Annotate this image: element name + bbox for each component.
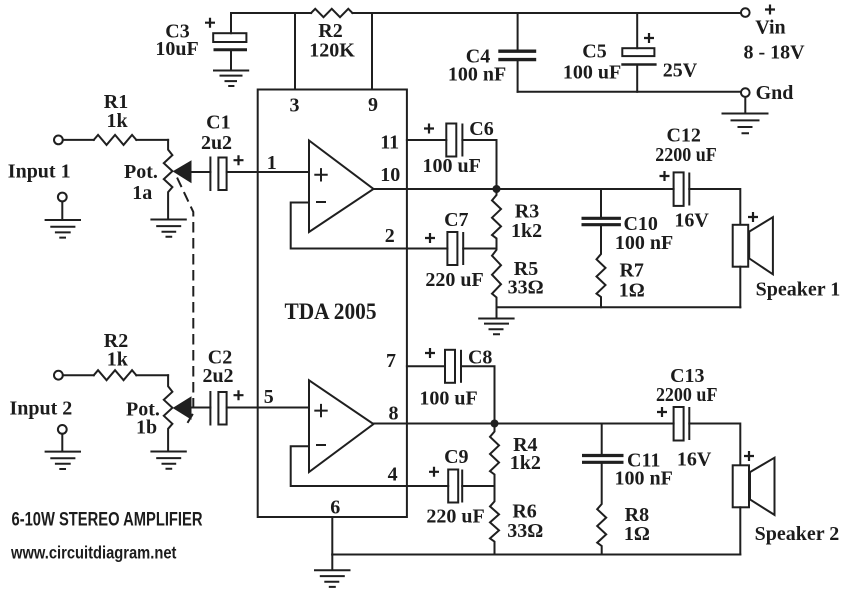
svg-text:33Ω: 33Ω [507,520,543,542]
svg-text:8: 8 [389,403,399,425]
svg-text:100 uF: 100 uF [563,62,621,84]
svg-text:220 uF: 220 uF [425,269,483,291]
polarity + (C5) [644,33,654,43]
svg-text:C7: C7 [444,209,468,231]
ground (channel 1) [479,307,513,334]
polarity + (C13) [657,407,667,417]
node junction channel 2 [491,420,499,428]
polarity + (C1) [234,155,244,165]
svg-text:6: 6 [330,497,340,519]
polarity + (speaker 2) [744,451,754,461]
wire input 2 to R2 [63,374,94,376]
op-amp A (channel 1) [309,141,374,233]
svg-text:Speaker 2: Speaker 2 [755,523,840,545]
speaker Speaker 1 [733,225,749,267]
wire pin 4 / C9 to R4-R6 junction [462,485,494,487]
svg-text:11: 11 [380,132,399,154]
wire input 1 to R1 [63,139,94,141]
IC U1 TDA2005 box [258,90,407,518]
polarity + (C7) [425,233,435,243]
wire op-amp A feedback to pin 2 [291,203,448,249]
polarity + (C3) [205,18,215,28]
svg-text:220 uF: 220 uF [426,506,484,528]
wire pin 8 output rail channel 2 [374,423,674,425]
wire pin 11 to C6 [407,139,446,141]
wire bottom rail channel 2 [332,554,740,556]
ground (input 1) [58,193,67,202]
resistor R1 1k [94,135,137,145]
ground (below C3) [214,71,248,87]
svg-text:2200 uF: 2200 uF [656,384,718,406]
resistor R6 33ohm [490,486,499,555]
svg-text:7: 7 [386,350,396,372]
svg-text:5: 5 [264,386,274,408]
ground (pot 1b) [151,452,185,469]
ground (pin 6) [315,555,350,587]
terminal Vin [741,8,750,17]
potentiometer Pot 1b track [164,375,173,451]
potentiometer Pot 1a track [164,140,173,219]
capacitor C11 100nF branch [601,424,603,455]
capacitor C8 100uF [445,350,455,383]
wire R2 to pot 1b [136,374,168,376]
svg-text:10: 10 [380,164,400,186]
wire op-amp B feedback to pin 4 [291,446,449,486]
capacitor C13 2200uF 16V [674,407,684,441]
svg-text:C9: C9 [444,446,468,468]
polarity + (C6) [424,124,434,134]
svg-text:1b: 1b [136,417,157,439]
wire C8 to output node channel 2 [461,366,495,423]
capacitor C9 220uF [448,470,458,503]
wire pin 2 / C7 to R3-R5 junction [463,248,496,250]
wire speaker 2 to bottom rail [739,507,741,554]
svg-text:100 uF: 100 uF [423,155,481,177]
resistor R4 1k2 [490,424,499,487]
terminal Input 2 [54,371,63,380]
svg-text:2u2: 2u2 [201,132,232,154]
resistor R3 1k2 [492,189,501,249]
wire R1 to pot 1a [136,139,168,141]
svg-text:10uF: 10uF [155,38,198,60]
wire pin 9 drop [371,13,373,90]
svg-text:Input 2: Input 2 [9,398,72,420]
node junction channel 1 [493,185,501,193]
capacitor C12 2200uF 16V [674,172,684,206]
svg-text:3: 3 [290,95,300,117]
polarity + (speaker 1) [748,212,758,222]
capacitor C7 220uF [447,232,457,265]
svg-text:8 - 18V: 8 - 18V [743,42,805,64]
resistor R8 1ohm [597,464,606,555]
svg-text:16V: 16V [674,210,709,232]
svg-text:C5: C5 [582,41,606,63]
wire C6 to output node [462,140,496,189]
wire top V+ rail right segment [352,12,740,14]
svg-text:1a: 1a [132,182,152,204]
svg-text:Gnd: Gnd [756,82,794,104]
polarity + (C9) [429,467,439,477]
wire C13 to speaker 2 [689,424,740,466]
capacitor C2 2u2 [209,392,211,425]
svg-text:C1: C1 [206,112,230,134]
resistor R7 1ohm [597,227,606,308]
potentiometer Pot 1a wiper arrow [173,160,192,183]
terminal Gnd [741,88,750,97]
svg-text:1k: 1k [106,110,128,132]
wire pin 3 drop [294,13,296,90]
wire pin 6 drop [331,517,333,555]
ground (below Gnd terminal) [723,97,768,133]
svg-text:1: 1 [267,152,277,174]
svg-text:1k: 1k [107,349,129,371]
wire pin 5 input [227,407,309,409]
svg-text:9: 9 [368,94,378,116]
svg-text:Input 1: Input 1 [8,161,71,183]
svg-text:2: 2 [385,225,395,247]
wire bottom rail channel 1 [497,306,741,308]
svg-text:33Ω: 33Ω [508,276,544,298]
ground (input 2) [58,425,67,434]
svg-text:C6: C6 [469,118,493,140]
terminal Input 1 [54,136,63,145]
capacitor C5 100uF 25V [636,13,638,48]
wire speaker 1 to bottom rail [739,267,741,308]
svg-text:TDA 2005: TDA 2005 [285,299,377,324]
wire pin 7 to C8 [407,365,445,367]
wire wiper 1a to C1 [191,171,210,173]
ground (pot 1a) [151,220,185,237]
svg-text:R7: R7 [619,259,643,281]
wire pin 10 output rail channel 1 [374,188,674,190]
op-amp B (channel 2) [309,380,374,472]
svg-text:25V: 25V [663,60,698,82]
capacitor C10 100nF branch [600,189,602,217]
capacitor C3 10uF [230,13,232,33]
svg-text:4: 4 [388,464,398,486]
capacitor C4 100nF [517,13,519,49]
svg-text:100 nF: 100 nF [615,467,673,489]
speaker Speaker 2 [733,465,749,507]
svg-text:120K: 120K [309,40,355,62]
svg-text:Speaker 1: Speaker 1 [756,279,841,301]
svg-text:1k2: 1k2 [510,452,541,474]
svg-text:Vin: Vin [755,17,785,39]
resistor R5 33ohm [492,249,501,308]
svg-text:2u2: 2u2 [202,365,233,387]
resistor R2 1k (input 2) [94,370,137,380]
potentiometer Pot 1b wiper arrow [173,396,192,420]
capacitor C6 100uF [446,124,456,157]
svg-text:100 nF: 100 nF [615,232,673,254]
svg-text:100 uF: 100 uF [419,388,477,410]
svg-text:www.circuitdiagram.net: www.circuitdiagram.net [10,543,176,563]
svg-text:Pot.: Pot. [124,161,158,183]
wire pin 1 input [227,171,309,173]
polarity + (Vin) [765,5,775,15]
svg-text:C8: C8 [468,347,492,369]
wire top V+ rail left segment [231,12,311,14]
svg-text:2200 uF: 2200 uF [655,144,717,166]
wire C12 to speaker 1 [689,189,740,225]
svg-text:16V: 16V [677,448,712,470]
polarity + (C8) [425,348,435,358]
svg-text:1k2: 1k2 [511,220,542,242]
svg-text:1Ω: 1Ω [624,523,650,545]
svg-text:1Ω: 1Ω [619,280,645,302]
wire wiper 1b to C2 [191,407,210,409]
polarity + (C12) [660,171,670,181]
wire ground rail (top right) [518,91,741,93]
svg-text:100 nF: 100 nF [448,64,506,86]
polarity + (C2) [234,390,244,400]
svg-text:6-10W STEREO AMPLIFIER: 6-10W STEREO AMPLIFIER [12,509,203,531]
mechanical coupling dashed line (ganged pot) [178,179,194,429]
resistor R2 120K (top) [311,9,352,17]
capacitor C1 2u2 [209,158,211,191]
